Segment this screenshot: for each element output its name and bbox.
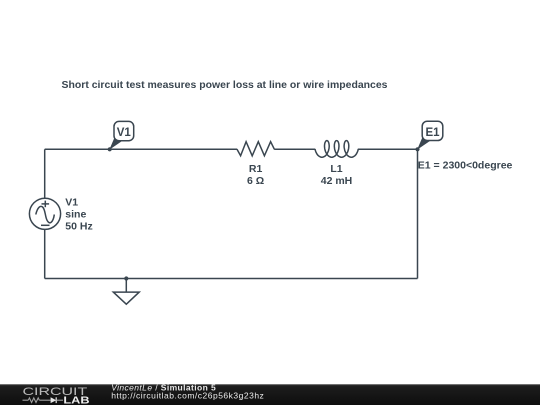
wire top horizontal (node V1 net) [45, 148, 238, 150]
svg-text:42 mH: 42 mH [321, 175, 353, 187]
node flag V1: junction dot [108, 147, 112, 151]
resistor R1 [237, 142, 274, 156]
ground junction dot [124, 276, 128, 280]
wire L1 to right corner [358, 148, 418, 150]
svg-text:E1: E1 [425, 127, 440, 139]
svg-text:50 Hz: 50 Hz [65, 221, 92, 233]
svg-text:http://circuitlab.com/c26p56k3: http://circuitlab.com/c26p56k3g23hz [111, 391, 264, 401]
voltage source V1 circle [29, 198, 60, 229]
node flag E1: box [422, 121, 443, 140]
svg-text:Short circuit test measures po: Short circuit test measures power loss a… [62, 80, 388, 91]
svg-text:LAB: LAB [63, 396, 89, 405]
svg-text:L1: L1 [330, 163, 342, 175]
svg-text:E1 = 2300<0degree: E1 = 2300<0degree [418, 160, 513, 172]
ground stub wire [125, 279, 127, 293]
node flag E1: pointer [417, 136, 430, 150]
wire left vertical upper [44, 149, 46, 198]
V1 minus sign [41, 224, 50, 226]
node flag E1: junction dot [415, 147, 419, 151]
svg-text:sine: sine [65, 209, 86, 221]
V1 sine glyph [36, 206, 55, 222]
wire left vertical lower [44, 230, 46, 279]
wire right vertical [417, 149, 419, 278]
node flag V1: pointer [109, 136, 122, 150]
inductor L1 [315, 141, 358, 158]
logo diode [51, 397, 57, 403]
V1 plus sign [42, 203, 50, 205]
node flag V1: box [114, 121, 134, 140]
wire between R1 and L1 [274, 148, 315, 150]
logo schematic row [23, 398, 51, 403]
svg-text:V1: V1 [65, 197, 78, 209]
svg-text:R1: R1 [249, 163, 263, 175]
svg-text:V1: V1 [117, 127, 132, 139]
ground symbol [113, 292, 139, 304]
svg-text:6 Ω: 6 Ω [247, 175, 264, 187]
wire bottom horizontal [45, 278, 418, 280]
